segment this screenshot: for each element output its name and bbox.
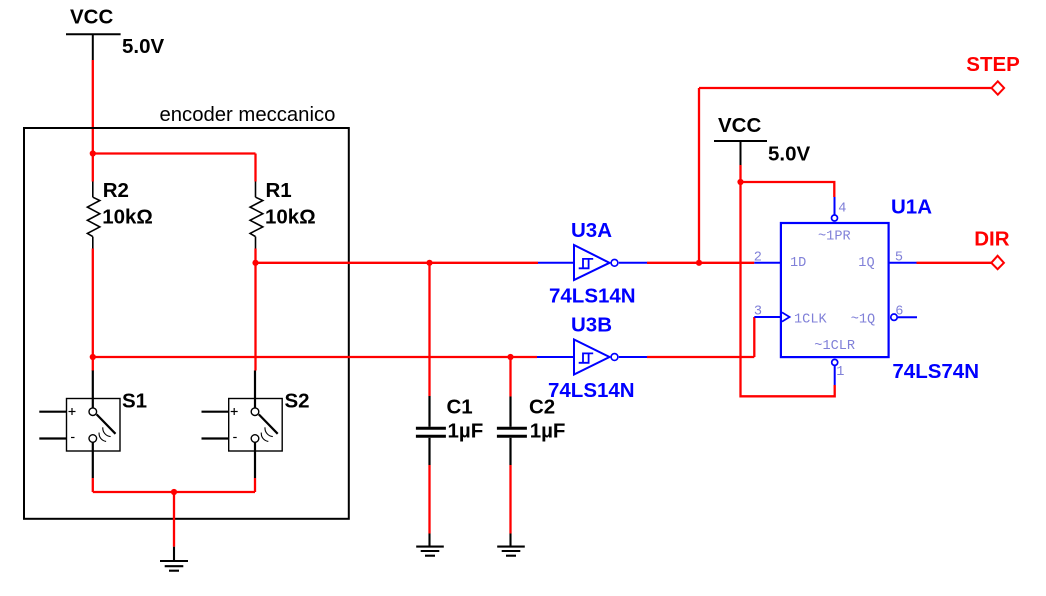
U1A body box <box>781 223 889 357</box>
C2 top plate <box>497 427 527 430</box>
flip-flop U1A <box>754 196 979 385</box>
svg-text:VCC: VCC <box>70 6 113 29</box>
svg-text:1µF: 1µF <box>530 419 566 442</box>
svg-text:1: 1 <box>836 365 844 380</box>
wire C1 drop <box>428 263 430 396</box>
C1 bottom plate <box>416 435 446 438</box>
S2 bottom pin <box>254 442 256 478</box>
U3B inverter triangle <box>574 340 610 375</box>
wire STEP horizontal <box>699 87 992 89</box>
U3A input pin 1 <box>538 262 574 264</box>
U3B output bubble <box>611 354 618 361</box>
node R2 bottom junction <box>90 354 96 360</box>
svg-text:S2: S2 <box>285 389 310 412</box>
S2 switch arm <box>259 414 278 433</box>
svg-text:74LS14N: 74LS14N <box>548 379 635 402</box>
pin 5 1Q lead <box>888 262 916 264</box>
capacitor C1 <box>416 395 483 465</box>
C1 top pin <box>428 396 430 427</box>
svg-text:R2: R2 <box>103 179 129 202</box>
svg-text:1Q: 1Q <box>858 256 874 271</box>
node common junction <box>171 489 177 495</box>
S2 body box <box>229 399 283 452</box>
wire C1 to ground <box>428 465 430 534</box>
U3A output bubble <box>611 259 618 266</box>
pin 4 bubble <box>832 215 838 221</box>
wire R1 bottom <box>254 249 256 263</box>
svg-text:~1Q: ~1Q <box>851 313 875 328</box>
wire VCC2 to CLR <box>741 182 835 396</box>
VCC pin stem <box>740 141 742 165</box>
svg-text:encoder meccanico: encoder meccanico <box>160 104 336 126</box>
VCC rail bar <box>714 140 767 142</box>
svg-text:6: 6 <box>895 305 903 320</box>
wire S2 bottom <box>254 478 256 492</box>
node C1 tap junction <box>426 260 432 266</box>
wire junction1 horizontal <box>93 152 256 154</box>
node junction VCC split <box>90 150 96 156</box>
U3A output pin 2 <box>619 262 647 264</box>
svg-text:VCC: VCC <box>718 114 761 137</box>
svg-text:STEP: STEP <box>966 53 1020 76</box>
S2 motion arcs <box>261 433 268 442</box>
clock wedge <box>782 312 790 321</box>
wire VCC1 stem <box>92 60 94 154</box>
wire R2 top <box>92 154 94 182</box>
svg-text:74LS74N: 74LS74N <box>892 360 979 383</box>
ground C2 <box>497 534 525 556</box>
wire VCC2 to PR <box>741 182 835 197</box>
port DIR <box>991 256 1004 269</box>
S1 body box <box>67 399 121 452</box>
svg-text:DIR: DIR <box>974 227 1010 250</box>
svg-text:R1: R1 <box>266 179 292 202</box>
svg-text:5.0V: 5.0V <box>122 35 164 58</box>
C2 bottom plate <box>497 435 527 438</box>
wire channel B (S1/R2 to U3B input) <box>93 356 537 358</box>
capacitor C2 <box>497 395 566 465</box>
S1 coil pin + <box>39 411 66 413</box>
pin 2 1D lead <box>754 262 781 264</box>
svg-text:U1A: U1A <box>891 196 932 219</box>
wire S1 top stub <box>92 357 94 371</box>
wire VCC2 stem <box>739 165 741 182</box>
pin 6 ~1Q lead <box>898 316 917 318</box>
svg-text:C1: C1 <box>447 395 473 418</box>
svg-text:S1: S1 <box>122 389 147 412</box>
port STEP <box>992 81 1005 94</box>
node VCC2 junction <box>737 179 743 185</box>
minus mark <box>233 437 237 439</box>
wire R2 bottom <box>92 249 94 358</box>
ground C1 <box>416 534 444 556</box>
U3A hysteresis symbol <box>579 259 594 268</box>
op U3B schmitt inverter <box>537 313 647 402</box>
power VCC2 <box>714 114 810 166</box>
pin 6 bubble <box>891 314 897 320</box>
S2 coil pin - <box>202 437 229 439</box>
S1 bottom pin <box>92 442 94 478</box>
C1 top plate <box>416 427 446 430</box>
wire switch common <box>93 491 255 493</box>
plus mark <box>69 411 76 413</box>
VCC rail bar <box>66 33 121 35</box>
resistor R2 <box>87 182 99 249</box>
wire C2 drop <box>509 357 511 397</box>
svg-text:4: 4 <box>838 202 846 217</box>
node R1 bottom junction <box>252 260 258 266</box>
S2 bottom contact <box>251 435 259 443</box>
U3B input pin 3 <box>537 356 574 358</box>
S1 switch arm <box>97 414 116 433</box>
node STEP junction <box>696 260 702 266</box>
op U3A schmitt inverter <box>538 219 647 308</box>
switch S1 <box>39 371 147 479</box>
svg-text:5: 5 <box>895 251 903 266</box>
ground encoder <box>160 547 188 571</box>
svg-text:~1PR: ~1PR <box>818 230 851 245</box>
svg-text:5.0V: 5.0V <box>768 142 810 165</box>
switch S2 <box>202 371 310 479</box>
pin 1 bubble <box>832 359 838 365</box>
svg-text:1D: 1D <box>790 256 806 271</box>
wire R1 top drop <box>254 154 256 182</box>
U3A inverter triangle <box>574 245 610 280</box>
svg-text:10kΩ: 10kΩ <box>102 206 153 229</box>
node C2 tap junction <box>507 354 513 360</box>
S1 top contact <box>89 408 97 416</box>
pin 1 ~1CLR lead <box>834 366 836 385</box>
svg-text:74LS14N: 74LS14N <box>549 285 636 308</box>
encoder meccanico box <box>24 128 349 519</box>
svg-text:U3B: U3B <box>571 313 612 336</box>
S2 top contact <box>251 408 259 416</box>
wire DIR out <box>917 262 992 264</box>
wire S2 top drop <box>254 263 256 371</box>
svg-text:3: 3 <box>754 304 762 319</box>
svg-text:U3A: U3A <box>571 219 612 242</box>
minus mark <box>71 437 75 439</box>
wire channel A (R1 to U3A input) <box>256 262 539 264</box>
svg-text:2: 2 <box>754 250 762 265</box>
wire C2 to ground <box>509 465 511 534</box>
wire STEP vertical <box>698 88 700 263</box>
S2 top pin <box>254 371 256 408</box>
plus mark <box>231 411 238 413</box>
pin 4 ~1PR lead <box>834 197 836 215</box>
wire U3A out <box>647 262 754 264</box>
wire U3B out up to CLK <box>753 317 755 357</box>
C2 bottom pin <box>509 438 511 465</box>
S1 top pin <box>92 371 94 408</box>
S2 coil pin + <box>202 411 229 413</box>
svg-text:~1CLR: ~1CLR <box>814 339 855 354</box>
svg-text:1CLK: 1CLK <box>794 313 827 328</box>
C2 top pin <box>509 397 511 427</box>
wire to ground <box>173 492 175 547</box>
pin 3 1CLK lead <box>754 316 781 318</box>
power VCC1 <box>66 6 164 61</box>
resistor R1 <box>250 182 263 249</box>
U3B hysteresis symbol <box>579 353 594 362</box>
S1 bottom contact <box>89 435 97 443</box>
wire S1 bottom <box>92 478 94 492</box>
wire U3B out <box>647 356 754 358</box>
svg-text:10kΩ: 10kΩ <box>265 206 316 229</box>
S1 coil pin - <box>39 437 66 439</box>
S1 motion arcs <box>99 433 106 442</box>
svg-text:1µF: 1µF <box>448 419 484 442</box>
C1 bottom pin <box>428 438 430 465</box>
U3B output pin 4 <box>619 356 647 358</box>
VCC pin stem <box>92 34 94 60</box>
